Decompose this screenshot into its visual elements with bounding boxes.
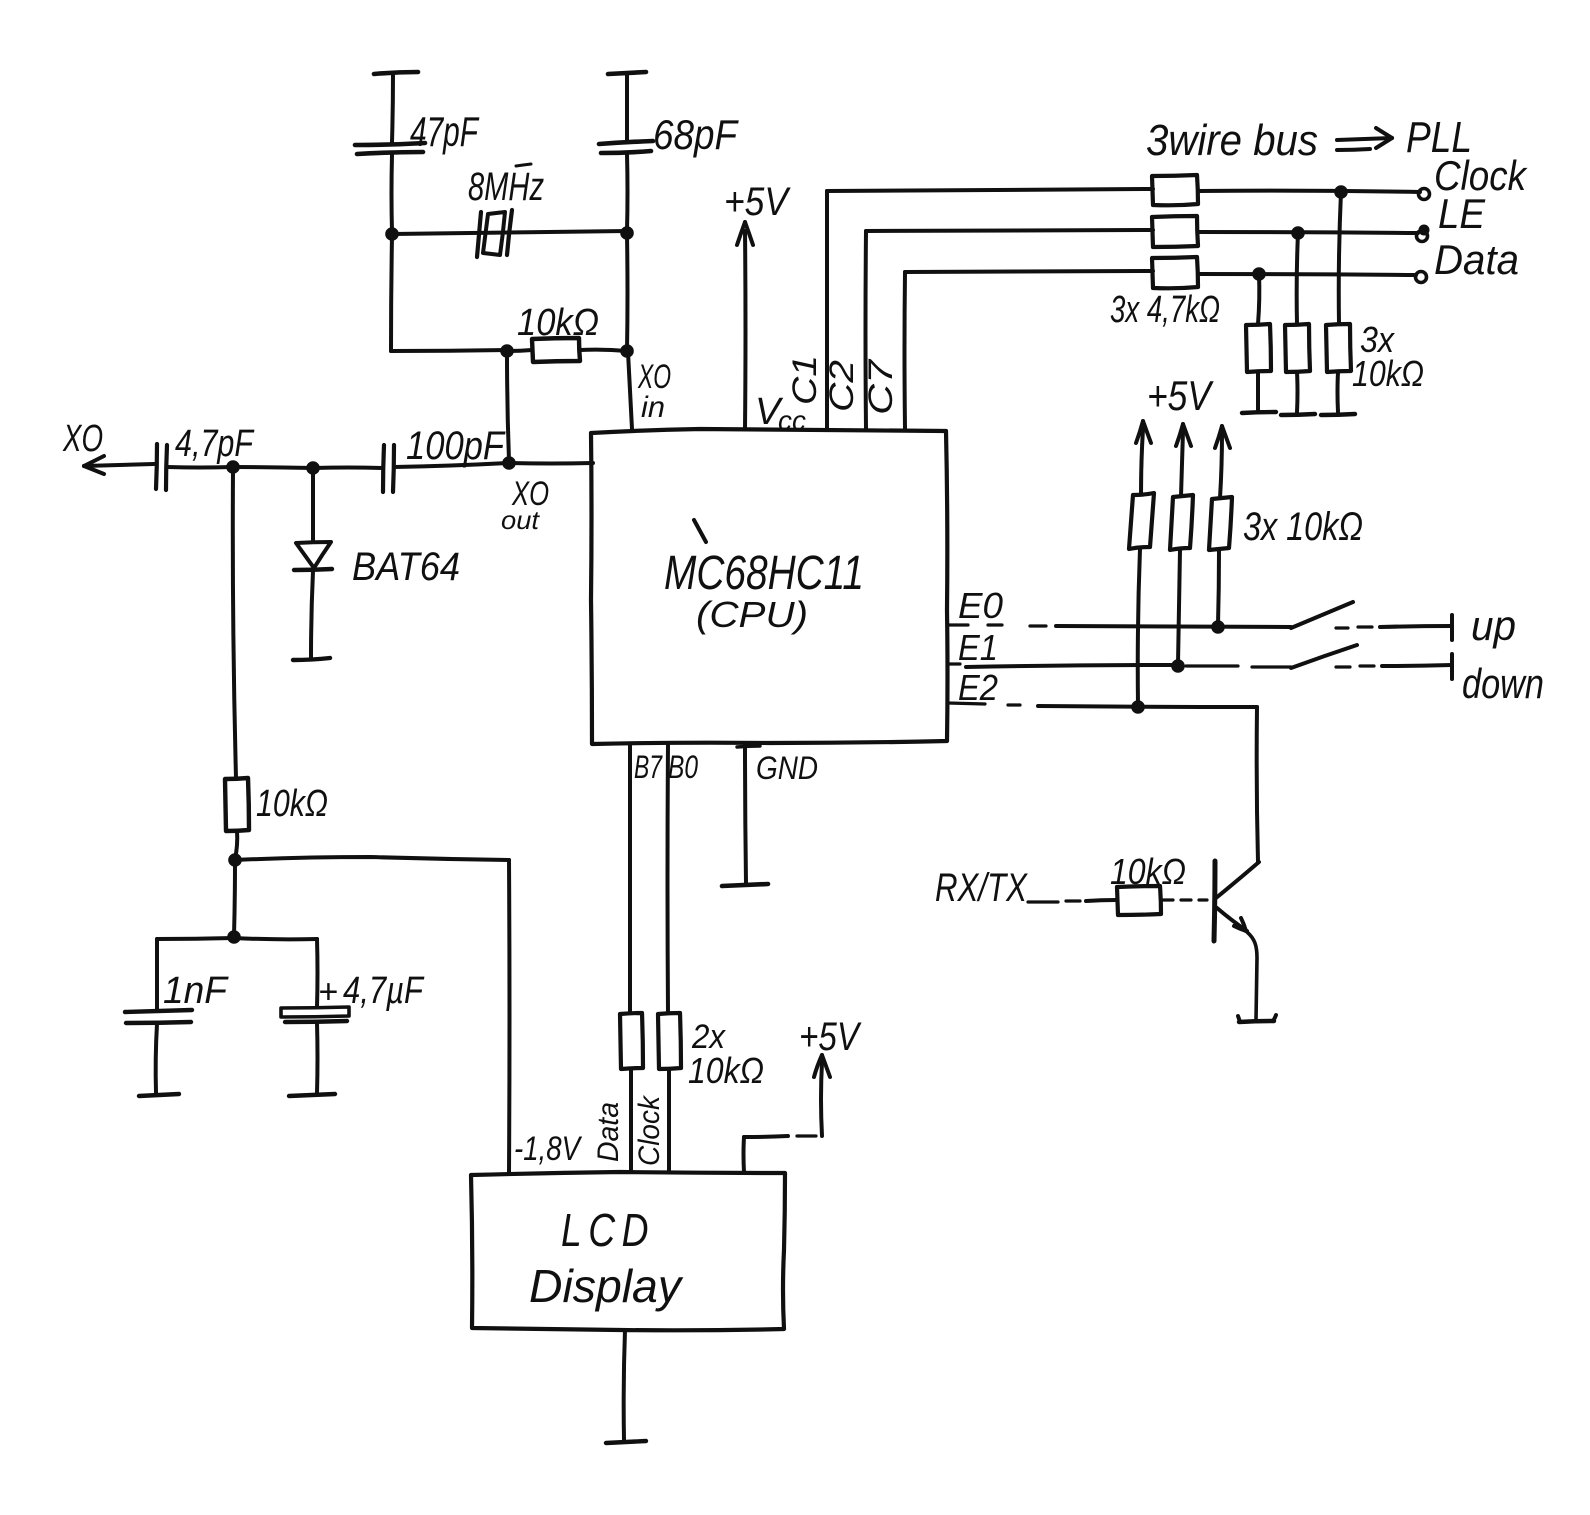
svg-text:B0: B0 [668,749,698,785]
terminal Data [1416,236,1520,283]
wire node A down to R 10k [233,469,236,778]
label 3wire bus to PLL [1146,113,1472,165]
svg-text:68pF: 68pF [653,111,739,158]
junction crystal left [385,227,399,241]
transistor Q1 collector [1216,862,1259,898]
svg-text:up: up [1471,602,1516,649]
resistor 10k Clock line [658,1013,681,1172]
wire C7 to bus [905,271,1154,429]
wire E1 from CPU [948,664,1291,667]
svg-text:E0: E0 [958,585,1003,626]
pin label E0 [958,585,1003,626]
label -1,8V [514,1130,583,1168]
svg-text:10kΩ: 10kΩ [688,1050,764,1091]
label RX/TX [935,866,1028,910]
power arrow 3 [1215,426,1230,498]
label 3x 10kOhm pullups [1243,505,1363,549]
wire LE junction down [1297,233,1298,324]
junction crystal right [620,226,634,240]
resistor 10k pulldown 1 (Data) [1246,324,1271,410]
svg-text:C2: C2 [823,360,861,412]
wire left side of crystal loop [391,236,392,351]
pin label E1 [958,627,998,668]
IC U2 LCD Display box [471,1172,785,1330]
label XO in [637,358,671,424]
wire bias node to LCD -1,8V [235,857,510,1172]
wire XO out to CPU [501,463,593,535]
svg-text:10kΩ: 10kΩ [1110,851,1186,892]
svg-text:GND: GND [756,750,818,786]
svg-text:47pF: 47pF [410,108,480,155]
wire pullup E0 down [1218,550,1219,625]
pin label Data rotated [592,1102,625,1162]
svg-text:10kΩ: 10kΩ [517,302,599,344]
label 2x 10kOhm [688,1018,764,1091]
resistor 10k pulldown 2 (LE) [1285,324,1310,412]
pin label Vcc and +5V arrow [724,180,806,436]
label +5V pullups [1147,372,1214,419]
svg-text:(CPU): (CPU) [696,594,808,635]
ground rail bar above C 68pF [608,72,646,74]
svg-text:1nF: 1nF [163,970,229,1012]
pin label B7 [634,749,663,785]
svg-text:10kΩ: 10kΩ [1352,353,1424,394]
capacitor 100pF [313,424,508,492]
junction LE drop [1291,226,1305,240]
resistor 10k pulldown 3 (Clock) [1326,324,1351,412]
svg-text:8MHz: 8MHz [468,165,544,209]
pin label B0 [668,749,698,785]
power arrow 2 [1176,424,1191,496]
pin label Clock rotated [633,1094,666,1166]
crystal Y1 8MHz [468,164,544,257]
wire Data junction down [1258,274,1259,324]
capacitor 68pF [599,74,739,231]
wire LCD bottom [624,1330,625,1440]
wire resistor to base [1161,898,1207,901]
svg-text:B7: B7 [634,749,663,785]
transistor Q1 emitter [1217,908,1257,1020]
wire B7 down [628,744,632,1013]
wire crystal top rail [392,231,627,234]
svg-text:Data: Data [1434,236,1519,283]
junction filter node [227,930,241,944]
ground bar 1nF [139,1094,179,1096]
wire node A to node B [233,467,313,468]
svg-text:4,7µF: 4,7µF [343,970,424,1012]
resistor 4,7k on LE line [1152,216,1418,247]
resistor 10k feedback [507,302,627,362]
ground bar GND [722,884,768,886]
ground bar pulldown 3 [1321,414,1355,415]
pin label C1 [786,355,824,405]
capacitor 1nF [125,938,234,1093]
label LCD Display [529,1204,684,1312]
wire Clock junction down [1339,192,1341,324]
ground bar emitter [1238,1015,1276,1022]
wire RX/TX to resistor [1028,900,1116,902]
svg-text:+5V: +5V [1147,372,1214,419]
pin label E2 [958,667,998,708]
svg-text:Display: Display [529,1260,684,1312]
resistor 10k bias [225,778,328,859]
wire C1 to bus [827,189,1153,429]
wire XO in drop [627,235,632,429]
svg-text:3wire bus: 3wire bus [1146,116,1318,165]
svg-text:+5V: +5V [724,180,791,224]
resistor 10k pullup E0 [1209,497,1232,550]
junction E1 pullup [1171,659,1185,673]
wire crystal loop bottom left [391,350,508,351]
wire E0 from CPU [948,625,1291,627]
resistor 4,7k on Clock line [1152,175,1420,205]
wire C2 to bus [866,230,1154,429]
resistor 10k base [1110,851,1186,915]
pin label C2 [823,360,861,412]
wire E2 corner down to transistor collector [1257,707,1258,862]
svg-text:3x 4,7kΩ: 3x 4,7kΩ [1110,289,1220,331]
resistor 10k Data line [620,1013,643,1172]
label 3x 10kOhm right [1352,319,1424,394]
ground bar 4,7uF [289,1094,335,1096]
ground bar pulldown 2 [1281,414,1315,415]
transistor Q1 base bar [1214,861,1215,941]
svg-text:cc: cc [778,405,806,436]
capacitor 4,7pF [156,423,254,490]
ground bar LCD [606,1441,646,1443]
terminal Clock [1419,152,1528,200]
svg-text:E1: E1 [958,627,998,668]
svg-text:out: out [501,505,541,535]
svg-text:BAT64: BAT64 [352,545,460,589]
junction node A (4,7pF / BAT64 branch) [226,460,240,474]
svg-text:down: down [1462,660,1544,707]
svg-text:Data: Data [592,1102,625,1162]
switch S2 down [1291,645,1544,707]
wire pullup E2 down [1138,549,1140,705]
junction XO out node [502,456,516,470]
IC U1 MC68HC11 CPU box [591,429,948,744]
junction E2 pullup [1131,700,1145,714]
pin GND wire and label [737,743,818,883]
svg-text:XO: XO [62,418,103,460]
junction Clock drop [1334,185,1348,199]
switch S1 up [1291,602,1516,649]
junction Data drop [1252,267,1266,281]
diode BAT64 [293,470,460,660]
power arrow 1 [1136,421,1151,494]
terminal LE [1417,190,1486,242]
svg-text:in: in [641,391,665,424]
label 3x 4,7kOhm [1110,289,1220,331]
svg-text:+5V: +5V [799,1015,862,1059]
label XO output arrow [62,418,154,474]
junction bias node [228,853,242,867]
svg-text:RX/TX: RX/TX [935,866,1028,910]
svg-text:4,7pF: 4,7pF [175,423,254,465]
resistor 10k pullup E2 [1129,493,1154,549]
svg-text:MC68HC11: MC68HC11 [664,547,864,600]
capacitor 4,7uF electrolytic [234,938,424,1093]
svg-text:C7: C7 [862,359,900,415]
ground bar pulldown 1 [1242,412,1276,413]
pin label C7 [862,359,900,415]
capacitor 47pF [355,74,480,232]
junction resistor feedback right [620,344,634,358]
wire pullup E1 down [1178,550,1180,664]
wire bias node down [234,862,235,936]
resistor 10k pullup E1 [1170,495,1193,550]
svg-text:LCD: LCD [561,1204,655,1256]
svg-text:100pF: 100pF [406,424,506,468]
resistor 4,7k on Data line [1152,257,1416,288]
svg-text:10kΩ: 10kΩ [256,783,328,825]
wire B0 down [666,744,671,1013]
junction resistor feedback left [500,344,514,358]
ground rail bar above C 47pF [374,72,418,74]
svg-text:LE: LE [1438,190,1486,237]
label MC68HC11 [664,520,864,635]
svg-text:3x 10kΩ: 3x 10kΩ [1243,505,1363,549]
svg-text:Clock: Clock [633,1094,666,1166]
junction node B (BAT64 top) [306,461,320,475]
wire feedback node drop to XO out [507,353,509,461]
wire LCD +5V [744,1015,862,1172]
wire E2 from CPU [948,703,1257,707]
junction E0 pullup [1211,620,1225,634]
svg-text:-1,8V: -1,8V [514,1130,583,1168]
svg-text:+: + [318,973,338,1011]
svg-text:C1: C1 [786,355,824,405]
